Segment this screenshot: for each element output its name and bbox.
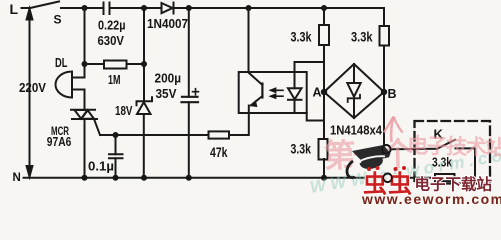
capacitor 200u 35V branch (188, 8, 190, 178)
svg-text:200µ: 200µ (155, 71, 182, 86)
zener 18V (137, 97, 153, 105)
svg-text:3.3k: 3.3k (291, 141, 312, 157)
wire top rail (61, 7, 103, 9)
wire resistor to lower terminal (392, 177, 435, 179)
wire LED cathode pin (307, 113, 324, 121)
node zener top junction (141, 61, 147, 67)
svg-text:220V: 220V (19, 80, 46, 95)
opto transistor (249, 73, 263, 86)
svg-text:97A6: 97A6 (47, 134, 72, 149)
bridge 1N4148x4 (324, 64, 384, 118)
wire terminal to switch K (391, 148, 437, 150)
wire B to terminal (383, 92, 385, 145)
node 1M junction (82, 61, 88, 67)
diode 1N4007 (162, 3, 174, 14)
node: optocoupler branch top junction (246, 5, 252, 11)
svg-text:3.3k: 3.3k (291, 29, 312, 45)
wire L to switch (22, 7, 31, 9)
plus sign (193, 89, 199, 95)
node: 0.1u rail junction (113, 175, 119, 181)
switch K (437, 140, 455, 149)
node: zener branch top junction (141, 5, 147, 11)
svg-text:A: A (313, 85, 322, 99)
node: triac rail junction (82, 175, 88, 181)
wire A branch down (323, 92, 325, 139)
svg-text:1N4148x4: 1N4148x4 (330, 123, 383, 138)
node A (321, 89, 327, 95)
svg-text:1M: 1M (108, 73, 121, 87)
resistor 3.3k in box (435, 174, 455, 181)
resistor 1M (104, 61, 127, 69)
terminal upper circle (382, 145, 391, 154)
wire 47k to opto emitter (229, 113, 249, 135)
switch S (30, 2, 59, 9)
wire top rail mid (110, 7, 162, 9)
svg-text:47k: 47k (210, 144, 228, 160)
watermark red chongchong (363, 166, 413, 198)
svg-text:0.1µ: 0.1µ (88, 160, 114, 174)
node: lower 3.3k rail junction (321, 175, 327, 181)
wire 1M to zener node (127, 63, 145, 65)
resistor 3.3k lower (319, 139, 328, 160)
svg-text:电子技术站: 电子技术站 (407, 134, 501, 161)
capacitor 0.1u branch (115, 135, 117, 178)
node: 200u branch top junction (186, 5, 192, 11)
bottom rail N (24, 177, 384, 179)
svg-text:www.eeworm.com: www.eeworm.com (361, 191, 501, 206)
resistor 3.3k #2 (383, 8, 385, 26)
svg-text:B: B (388, 87, 397, 101)
wire opto collector feed (248, 8, 250, 72)
wire triac gate (94, 119, 100, 135)
dashed enclosure K module (415, 121, 491, 184)
wire lamp branch upper (84, 8, 86, 78)
terminal lower circle ring redraw (383, 174, 392, 183)
node 0.1u junction (113, 132, 119, 138)
svg-text:N: N (13, 172, 21, 184)
terminal lower circle (383, 174, 392, 183)
watermark pink arrow (391, 117, 393, 142)
wire K down (455, 148, 476, 177)
wire top rail right (173, 7, 385, 9)
svg-text:0.22µ: 0.22µ (98, 18, 126, 33)
wire to 1M (85, 63, 105, 65)
resistor 47k (209, 131, 230, 138)
node: 200u rail junction (186, 175, 192, 181)
wire lamp to triac (84, 90, 86, 110)
svg-text:L: L (10, 1, 19, 17)
svg-text:35V: 35V (156, 86, 177, 101)
wire LED anode feed (295, 62, 325, 72)
svg-text:1N4007: 1N4007 (147, 17, 188, 31)
lamp DL (56, 72, 72, 98)
terminal upper circle ring redraw (382, 145, 391, 154)
node: lamp branch junction (82, 5, 88, 11)
svg-text:3.3k: 3.3k (351, 29, 373, 45)
logo graduation cap (347, 145, 391, 178)
source 220V arrow (29, 19, 31, 166)
svg-text:18V: 18V (115, 103, 133, 118)
watermark teal www.eeworm.com (309, 142, 501, 197)
opto light arrows (273, 90, 284, 96)
opto LED (294, 72, 296, 88)
node: zener rail junction (141, 175, 147, 181)
triac MCR97A6 (71, 110, 97, 119)
watermark pink characters (323, 134, 501, 174)
wire gate line (100, 134, 209, 136)
capacitor 0.22u 630V (104, 3, 110, 15)
node B (381, 89, 387, 95)
wire triac anode to rail (84, 119, 86, 178)
node: resistor R-3.3k#1 top junction (321, 5, 327, 11)
svg-text:DL: DL (55, 55, 68, 70)
svg-text:S: S (54, 12, 62, 26)
resistor 3.3k #1 (323, 8, 325, 25)
zener 18V branch wire (143, 8, 145, 178)
svg-text:630V: 630V (98, 33, 125, 48)
optocoupler U1 box (239, 72, 307, 113)
